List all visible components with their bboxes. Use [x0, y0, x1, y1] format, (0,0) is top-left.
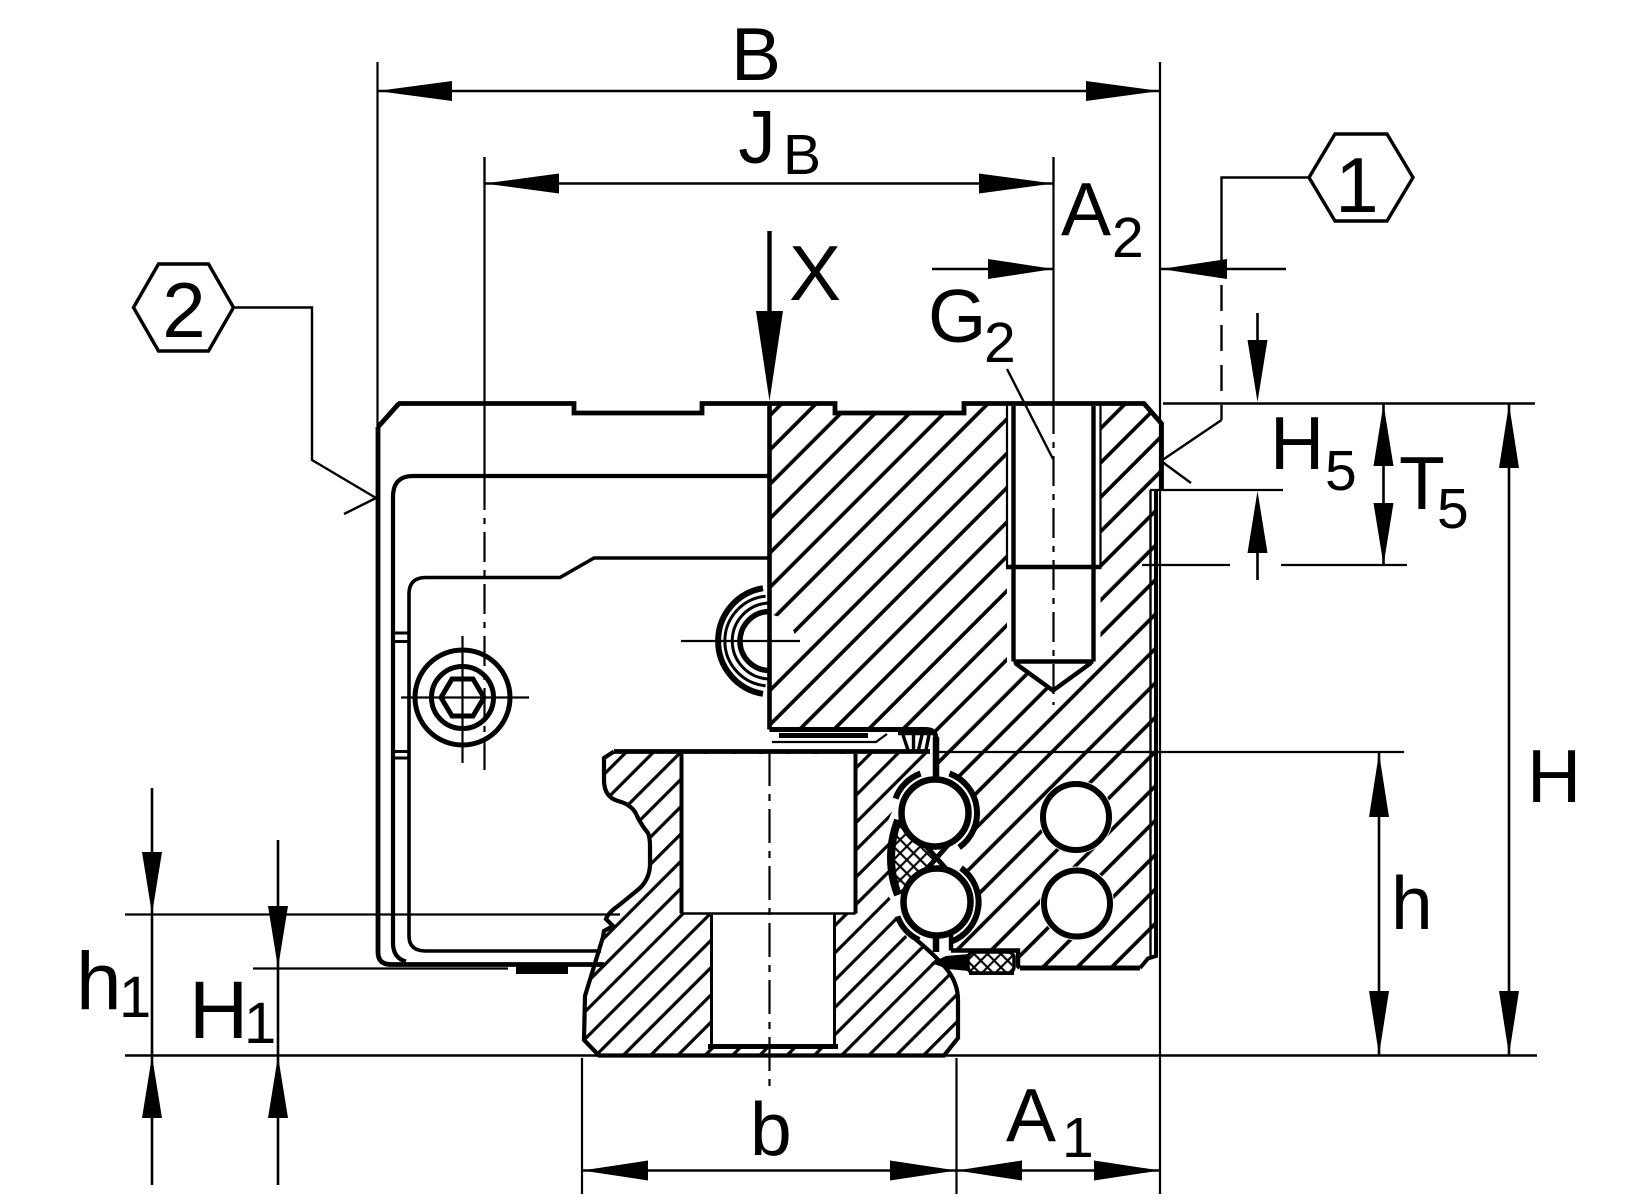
- svg-text:2: 2: [984, 311, 1016, 375]
- rail hatched section: [584, 752, 958, 1056]
- svg-text:2: 2: [1112, 206, 1144, 270]
- svg-text:J: J: [738, 95, 776, 179]
- ball upper right: [1043, 784, 1109, 850]
- carriage top edge outline: [398, 404, 1162, 491]
- callout hexagon 2: [134, 264, 377, 514]
- svg-text:h: h: [76, 936, 122, 1027]
- carriage underside: [770, 730, 937, 780]
- svg-text:B: B: [783, 123, 821, 187]
- svg-text:B: B: [731, 12, 781, 96]
- centerline G2: [1052, 157, 1054, 404]
- groove arcs upper ball: [949, 774, 977, 848]
- centerline screw: [483, 157, 485, 480]
- section arrow X: [756, 229, 841, 401]
- wiper fingers: [898, 734, 934, 751]
- svg-text:G: G: [928, 274, 986, 358]
- svg-text:H: H: [1270, 401, 1324, 485]
- svg-text:1: 1: [1335, 141, 1378, 229]
- svg-text:5: 5: [1437, 477, 1469, 541]
- svg-text:1: 1: [244, 991, 276, 1056]
- ball lower right: [1044, 871, 1110, 937]
- dimension h: [934, 752, 1433, 1055]
- ball separator crosshatch: [893, 821, 934, 893]
- carriage left edge: [378, 404, 604, 965]
- G2 threaded hole: [1006, 404, 1102, 691]
- right edge lower part: [1149, 490, 1151, 956]
- dimension H5: [1150, 313, 1357, 580]
- bottom seal: [931, 952, 1014, 974]
- end plate bottom lip: [516, 967, 568, 975]
- carriage block hatched section: [770, 404, 1162, 969]
- dimension H: [1499, 404, 1581, 1055]
- dimension JB: [485, 95, 1054, 194]
- baseline: [125, 1054, 1537, 1056]
- svg-text:A: A: [1006, 1073, 1056, 1157]
- dimension h1: [76, 788, 620, 1185]
- seal strip under carriage: [779, 733, 868, 738]
- callout hexagon 1: [1161, 134, 1413, 483]
- socket screw M: [401, 636, 529, 763]
- lube hole arcs: [681, 588, 800, 694]
- label G2 leader: [928, 274, 1053, 459]
- svg-text:A: A: [1061, 167, 1111, 251]
- svg-text:5: 5: [1325, 439, 1357, 503]
- svg-text:H: H: [1527, 734, 1581, 818]
- top extension line right: [1163, 402, 1535, 404]
- ball cusp: [925, 845, 948, 871]
- rail counterbore: [682, 754, 856, 914]
- svg-text:2: 2: [162, 266, 205, 354]
- dimension b: [582, 1058, 957, 1194]
- svg-text:1: 1: [1062, 1106, 1094, 1170]
- ball upper left: [902, 780, 969, 847]
- clamp ticks: [393, 633, 409, 758]
- svg-text:h: h: [1391, 861, 1433, 945]
- ball lower left: [904, 869, 971, 936]
- dimension H1: [189, 840, 508, 1185]
- centerline rail: [768, 752, 770, 1090]
- dimension T5: [1142, 404, 1469, 565]
- end plate inner contour: [393, 476, 770, 962]
- svg-text:1: 1: [119, 965, 151, 1030]
- groove arcs lower ball: [951, 868, 978, 942]
- dimension A1: [957, 1073, 1161, 1181]
- dimension B: [378, 12, 1161, 1194]
- end plate mid contour step: [409, 558, 770, 951]
- dimension A2: [932, 167, 1286, 279]
- svg-text:H: H: [189, 965, 248, 1056]
- section boundary: [767, 404, 772, 730]
- rail outline: [584, 752, 958, 1056]
- svg-text:b: b: [750, 1087, 792, 1171]
- rail top: [614, 749, 930, 754]
- svg-text:X: X: [789, 229, 841, 317]
- ball connectors: [933, 737, 940, 952]
